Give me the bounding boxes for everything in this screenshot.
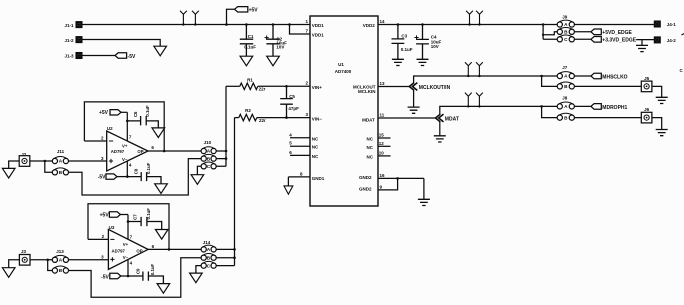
svg-text:MCLKOUT/IN: MCLKOUT/IN <box>419 85 451 91</box>
svg-text:U2: U2 <box>107 126 113 131</box>
svg-text:0.1uF: 0.1uF <box>244 45 256 50</box>
wire U3 output pin 6 to J14-A <box>148 244 201 249</box>
power -5V tag (U3) <box>101 273 128 280</box>
svg-text:10V: 10V <box>276 45 284 50</box>
wire U2 pin 4 V- <box>127 161 132 177</box>
svg-text:+5VD_EDGE: +5VD_EDGE <box>602 30 632 36</box>
power +5VD_EDGE tag <box>574 29 632 36</box>
ground (J10-C) <box>191 175 204 185</box>
resistor R2 <box>235 108 311 123</box>
wire U1 pin 11 to MDAT tag <box>378 117 436 119</box>
svg-text:R1: R1 <box>247 77 253 82</box>
ground (J14-C) <box>190 273 203 283</box>
svg-text:J13: J13 <box>56 249 64 254</box>
svg-text:+5V: +5V <box>99 110 109 116</box>
svg-text:V+: V+ <box>122 143 128 148</box>
svg-text:0.1uF: 0.1uF <box>146 208 151 220</box>
wire +5V rail from J1-1 to U1 pin 1 <box>82 24 310 26</box>
U1 pin 3 VIN- <box>305 112 322 121</box>
svg-text:J4-2: J4-2 <box>667 38 677 43</box>
resistor R1 <box>226 77 310 91</box>
net tag MCLKOUT/IN <box>409 83 450 91</box>
svg-text:0.1uF: 0.1uF <box>401 47 413 52</box>
jumper J13 <box>52 249 68 273</box>
ground (GND2) <box>418 199 430 205</box>
wire U3 feedback pin2 to output <box>88 204 170 251</box>
capacitor C1 <box>240 23 256 56</box>
capacitor C4 (polarized) <box>414 23 441 59</box>
svg-text:+5V: +5V <box>249 8 259 14</box>
wire U2 pin 2 <box>84 136 106 142</box>
wire MCLKOUT to J7-B <box>540 75 557 87</box>
wire J1-3 to -5V <box>82 55 115 57</box>
capacitor C6 <box>126 105 158 128</box>
capacitor C2 (polarized) <box>265 23 288 56</box>
capacitor C3 <box>392 23 413 59</box>
testpoint on MCLKOUT line <box>465 62 472 77</box>
svg-text:0.1uF: 0.1uF <box>146 162 151 174</box>
svg-text:15: 15 <box>379 133 385 138</box>
svg-text:C5: C5 <box>289 94 295 99</box>
ground (C4) <box>417 59 429 65</box>
svg-text:VIN−: VIN− <box>312 116 323 121</box>
wire +3.3VD_EDGE to J4-2 <box>636 39 654 41</box>
svg-text:J4-1: J4-1 <box>667 22 677 27</box>
svg-text:47pF: 47pF <box>288 106 299 111</box>
svg-text:B: B <box>59 268 63 273</box>
svg-text:12: 12 <box>379 141 385 146</box>
wire J14 outputs to R2 <box>216 118 236 266</box>
U1 pin 10 NC <box>367 150 391 159</box>
svg-text:J11: J11 <box>57 149 65 154</box>
svg-text:10V: 10V <box>431 44 439 49</box>
ground (J5) <box>656 97 668 103</box>
wire J11-A to U2 pin 3 <box>69 156 107 161</box>
svg-text:VDD2: VDD2 <box>363 23 376 28</box>
ground (C6) <box>152 128 165 138</box>
wire J3 to J13 <box>30 259 52 271</box>
wire J11-B to J10-B (bottom rail) <box>69 159 202 195</box>
wire U3 pin 2 <box>88 234 108 239</box>
svg-text:AD797: AD797 <box>111 149 125 154</box>
svg-text:10: 10 <box>379 150 385 155</box>
testpoint on MDAT line <box>476 93 483 108</box>
wire J7-B to J5 <box>574 85 641 87</box>
ground (C7) <box>155 230 168 240</box>
svg-text:13: 13 <box>380 81 386 86</box>
connector J2 <box>19 152 30 166</box>
wire U2 output pin 6 to J10-A <box>148 145 201 151</box>
capacitor C9 <box>127 264 164 284</box>
svg-text:J7: J7 <box>562 65 568 70</box>
svg-text:J5: J5 <box>644 76 650 81</box>
svg-text:C7: C7 <box>132 214 137 220</box>
wire J1-2 to ground <box>82 40 161 47</box>
svg-text:OP: OP <box>137 149 143 154</box>
U1 pin 16 GND2 <box>359 173 385 180</box>
U1 pin 8 GND1 <box>288 171 324 186</box>
U1 pin 14 VDD2 <box>363 19 385 28</box>
U1 pin 6 NC <box>289 150 319 159</box>
op-amp U3 <box>108 225 148 270</box>
capacitor C5 <box>280 85 299 119</box>
svg-text:22r: 22r <box>259 118 266 123</box>
svg-text:22r: 22r <box>259 87 266 92</box>
ground (GND1) <box>284 186 293 194</box>
wire VDD2 rail pin 14 to J9 <box>378 24 557 26</box>
svg-text:J8: J8 <box>562 96 568 101</box>
wire J13-A to U3 pin 3 <box>69 255 109 260</box>
svg-text:NC: NC <box>367 137 374 142</box>
wire MCLKOUT/IN up to J7 <box>414 76 558 83</box>
wire GND2 pins 16,9 to ground <box>378 177 424 199</box>
wire J2 to ground <box>9 161 20 168</box>
svg-text:AD7400: AD7400 <box>335 69 352 74</box>
testpoint on VDD2 rail <box>466 11 473 26</box>
svg-text:C1: C1 <box>248 34 254 39</box>
U1 pin 9 GND2 <box>359 185 383 192</box>
svg-text:+3.3VD_EDGE: +3.3VD_EDGE <box>602 38 636 44</box>
wire to ground (J9-C) <box>641 40 643 46</box>
ground (MDAT) <box>434 136 446 142</box>
U1 pin 2 VIN+ <box>305 81 322 90</box>
connector J1-3 <box>64 53 81 59</box>
svg-text:16: 16 <box>380 173 386 178</box>
wire J14-C to ground <box>196 266 201 274</box>
connector J3 <box>19 249 30 265</box>
connector J6 <box>641 107 652 123</box>
op-amp U2 <box>107 126 148 171</box>
connector J1-1 <box>64 22 81 28</box>
ground (J3) <box>2 268 15 278</box>
svg-text:NC: NC <box>312 154 319 159</box>
testpoint on MDAT line <box>465 93 472 108</box>
svg-text:B: B <box>59 170 63 175</box>
ground (C2) <box>267 56 280 66</box>
wire U3 pin 4 V- <box>128 259 133 276</box>
svg-text:J3: J3 <box>21 249 27 254</box>
wire MDAT to ground <box>439 122 441 136</box>
svg-text:GND2: GND2 <box>359 187 372 192</box>
net tag MDAT <box>436 114 459 122</box>
jumper J9 <box>557 15 574 42</box>
ground (J1-2) <box>154 46 167 56</box>
svg-text:14: 14 <box>380 19 386 24</box>
power -5V tag (U2) <box>98 174 128 181</box>
ground (C1) <box>240 56 253 66</box>
U1 pin 7 VDD1 <box>305 29 324 38</box>
power +3.3VD_EDGE tag <box>574 37 636 44</box>
capacitor C8 <box>126 162 161 183</box>
svg-text:J14: J14 <box>203 240 211 245</box>
svg-text:J10: J10 <box>204 140 212 145</box>
wire MDAT to J8-B <box>540 105 557 118</box>
wire J13-B to J14-B (bottom rail) <box>69 258 202 298</box>
net tag MDROPH1 <box>574 104 627 111</box>
wire U3 pin 7 V+ <box>128 215 133 240</box>
svg-text:GND1: GND1 <box>312 176 325 181</box>
U1 pin 11 MDAT <box>362 112 385 122</box>
svg-text:AD797: AD797 <box>112 248 126 253</box>
wire J9-A to J4-1 <box>574 24 654 26</box>
testpoint on MCLKOUT line <box>476 62 483 77</box>
wire J10 outputs to R1 <box>216 86 227 166</box>
net tag MHSCLKO <box>574 73 627 80</box>
svg-text:-5V: -5V <box>101 274 109 280</box>
svg-text:C3: C3 <box>401 33 407 38</box>
ground (C8) <box>155 184 168 194</box>
svg-text:VDD1: VDD1 <box>312 33 325 38</box>
svg-text:MDAT: MDAT <box>445 116 459 122</box>
capacitor C7 <box>127 208 162 230</box>
testpoint on +5V rail <box>180 11 187 26</box>
connector J4-1 <box>654 21 676 27</box>
svg-text:NC: NC <box>367 145 374 150</box>
svg-text:-5V: -5V <box>128 54 136 60</box>
U1 pin 15 NC <box>367 133 391 142</box>
jumper J7 <box>557 65 574 89</box>
edge tick mark <box>682 34 684 35</box>
svg-text:J1-3: J1-3 <box>64 54 74 59</box>
wire MDAT up to J8 <box>440 106 557 114</box>
svg-text:U3: U3 <box>109 225 115 230</box>
power +5V tag (U2) <box>99 110 127 117</box>
svg-text:NC: NC <box>312 136 319 141</box>
wire J3 to ground <box>9 260 20 268</box>
wire J10-C to ground <box>197 166 201 174</box>
svg-text:V+: V+ <box>123 242 129 247</box>
wire U2 pin 7 V+ <box>127 112 132 141</box>
svg-text:MHSCLKO: MHSCLKO <box>602 74 627 80</box>
connector J4-2 <box>654 37 676 43</box>
U1 pin 5 NC <box>289 141 319 150</box>
connector J1-2 <box>64 37 81 43</box>
ground (J9-C) <box>636 45 648 51</box>
svg-text:R2: R2 <box>245 108 251 113</box>
svg-text:NC: NC <box>312 145 319 150</box>
svg-text:J1-2: J1-2 <box>64 38 74 43</box>
wire J6 to ground <box>652 118 662 130</box>
svg-text:C9: C9 <box>136 268 141 274</box>
testpoint on +5V rail <box>192 11 199 26</box>
svg-text:MDROPH1: MDROPH1 <box>602 105 627 111</box>
svg-text:C8: C8 <box>134 168 139 174</box>
svg-text:0.1uF: 0.1uF <box>150 264 155 276</box>
power +5V tag <box>225 7 258 26</box>
svg-text:+5V: +5V <box>100 212 110 218</box>
svg-text:VDD1: VDD1 <box>312 23 325 28</box>
svg-text:V−: V− <box>123 255 129 260</box>
ground (C3) <box>392 59 404 65</box>
op-amp U1 AD7400 body <box>310 16 378 206</box>
svg-text:A: A <box>59 159 63 164</box>
U1 pin 12 NC <box>367 141 391 150</box>
connector J5 <box>641 76 652 92</box>
svg-text:MCLKIN: MCLKIN <box>358 89 376 94</box>
ground (MCLKOUT/IN) <box>408 107 420 113</box>
svg-text:VIN+: VIN+ <box>312 85 323 90</box>
svg-text:J1-1: J1-1 <box>64 23 74 28</box>
wire VDD2 to J9-B and J9-C <box>542 23 557 39</box>
ground (C9) <box>157 284 170 294</box>
ground (J6) <box>656 130 668 136</box>
power -5V tag <box>115 53 136 60</box>
ground (J2) <box>2 168 15 178</box>
jumper J11 <box>52 149 68 175</box>
U1 pin 1 VDD1 <box>305 19 324 28</box>
wire to U1 pin 7 <box>288 23 310 34</box>
wire J2 to J11 <box>30 160 53 173</box>
U1 pin 13 MCLKOUT/MCLKIN <box>353 81 385 94</box>
wire U2 feedback pin2 to output <box>84 102 165 152</box>
svg-text:MDAT: MDAT <box>362 117 375 122</box>
svg-text:GND2: GND2 <box>359 175 372 180</box>
jumper J8 <box>557 96 574 121</box>
jumper J14 <box>201 240 216 268</box>
svg-text:11: 11 <box>380 112 385 117</box>
testpoint on VDD2 rail <box>476 11 483 26</box>
svg-text:J2: J2 <box>21 152 27 157</box>
svg-text:0.1uF: 0.1uF <box>145 105 150 117</box>
svg-text:J9: J9 <box>562 15 568 20</box>
wire J5 to ground <box>652 86 662 97</box>
svg-text:NC: NC <box>367 154 374 159</box>
wire MCLKOUT/IN to ground <box>413 90 415 107</box>
svg-text:U1: U1 <box>338 62 344 67</box>
U1 pin 4 NC <box>289 132 319 141</box>
jumper J10 <box>201 140 216 169</box>
power +5V tag (U3) <box>100 212 128 219</box>
svg-text:A: A <box>59 258 63 263</box>
wire J8-B to J6 <box>574 117 641 119</box>
svg-text:C6: C6 <box>133 111 138 117</box>
wire U1 pin 13 to MCLKOUT/IN tag <box>378 86 409 88</box>
svg-text:-5V: -5V <box>98 175 106 181</box>
svg-text:OP: OP <box>136 248 142 253</box>
svg-text:J6: J6 <box>644 107 650 112</box>
